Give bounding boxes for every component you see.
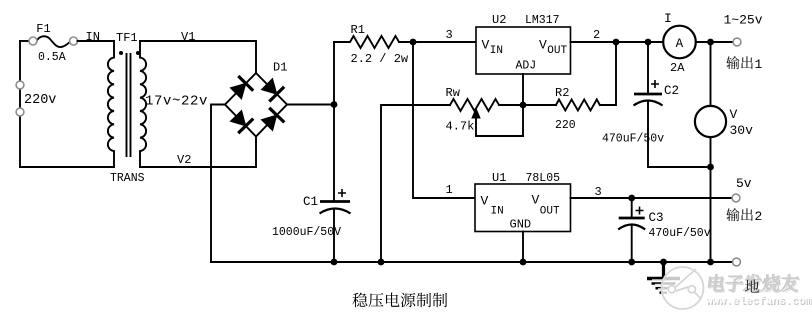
svg-text:470uF/50v: 470uF/50v xyxy=(602,133,664,146)
wire: node V2 secondary bottom to bridge xyxy=(140,137,256,168)
svg-text:78L05: 78L05 xyxy=(526,172,561,185)
label V2 xyxy=(177,153,191,167)
label pin 3 of U2 xyxy=(446,28,453,42)
label TRANS xyxy=(110,172,145,185)
resistor R2 xyxy=(556,100,600,111)
ground symbol xyxy=(647,259,680,293)
label shuchu2 (output 2) xyxy=(726,208,762,224)
wire: R1 to U2 VIN, pin 3 xyxy=(399,41,476,43)
label V xyxy=(730,107,738,122)
label LM317 xyxy=(525,14,560,27)
label I xyxy=(664,11,672,26)
label V1 xyxy=(181,30,195,44)
svg-text:TF1: TF1 xyxy=(116,31,138,45)
label Rw xyxy=(446,86,461,100)
wire: voltmeter top lead xyxy=(710,42,712,106)
label VOUT of U2 xyxy=(539,38,568,57)
svg-text:ADJ: ADJ xyxy=(516,60,537,73)
svg-text:D1: D1 xyxy=(273,61,287,75)
wire: U1 VOUT to output terminal 2, pin 3 xyxy=(571,197,733,199)
label VIN of U2 xyxy=(482,38,504,57)
label 30v xyxy=(730,123,754,138)
potentiometer Rw xyxy=(450,99,499,111)
potentiometer Rw wiper arrow xyxy=(472,109,480,119)
label IN xyxy=(86,30,100,44)
wire: voltmeter bottom to ground rail xyxy=(710,137,712,262)
label VOUT of U1 xyxy=(532,193,561,218)
label pin 2 of U2 xyxy=(593,28,600,42)
svg-text:17v~22v: 17v~22v xyxy=(145,94,208,110)
svg-text:U1: U1 xyxy=(492,171,506,185)
label 17v~22v xyxy=(145,94,208,110)
junction: R2 riser on output line xyxy=(613,39,620,46)
wire: U2 ADJ pin down xyxy=(522,74,524,136)
wire: C2 top lead xyxy=(647,42,649,94)
svg-text:220v: 220v xyxy=(24,93,56,108)
wire: C1 bottom to ground rail xyxy=(333,210,335,262)
label 0.5A xyxy=(38,51,66,64)
bridge diode bottom-left (L to B) xyxy=(230,110,253,133)
wire: C3 top lead xyxy=(631,198,633,218)
svg-text:LM317: LM317 xyxy=(525,14,560,27)
label 470uF/50v of C2 xyxy=(602,133,664,146)
svg-text:GND: GND xyxy=(510,217,532,231)
svg-text:F1: F1 xyxy=(36,22,50,36)
junction: C3 on rail xyxy=(628,259,635,266)
wire: tap down to U1 VIN, pin 1 xyxy=(413,42,475,198)
wire: ground rail xyxy=(211,261,733,263)
svg-text:470uF/50v: 470uF/50v xyxy=(649,227,711,240)
label 78L05 xyxy=(526,172,561,185)
wire: node V1 secondary top to bridge xyxy=(140,41,256,73)
junction: C1 on ground rail xyxy=(331,259,338,266)
wire: ground drop to Rw left xyxy=(381,105,450,262)
wire: Rw right to R2 left xyxy=(499,104,556,106)
op-amp/regulator U2 LM317 box xyxy=(476,27,571,74)
label C2 plus xyxy=(651,80,659,88)
svg-text:2A: 2A xyxy=(670,61,685,75)
watermark logo circle xyxy=(652,267,704,309)
transformer TF1 secondary winding xyxy=(140,41,146,167)
svg-text:V: V xyxy=(539,38,547,53)
label 220 xyxy=(555,119,576,132)
junction: Rw ground drop on rail xyxy=(378,259,385,266)
capacitor C3 xyxy=(618,218,645,230)
junction: tap to U1 input xyxy=(410,39,417,46)
label C3 xyxy=(649,211,664,225)
label D1 xyxy=(273,61,287,75)
svg-text:1: 1 xyxy=(446,183,453,197)
svg-text:IN: IN xyxy=(491,206,504,218)
resistor R1 xyxy=(334,36,399,48)
svg-text:2.2 / 2w: 2.2 / 2w xyxy=(351,52,409,66)
wire: ADJ loop to Rw wiper xyxy=(476,113,523,136)
wire: U1 GND pin to rail xyxy=(522,232,524,263)
label R1 xyxy=(351,23,365,37)
label GND of U1 xyxy=(510,217,532,231)
label C1 xyxy=(303,195,318,209)
label C3 plus xyxy=(636,207,644,215)
terminal: output 2 xyxy=(732,194,740,202)
terminal: 220v input top xyxy=(16,81,24,89)
terminal: output 1 xyxy=(733,38,741,46)
svg-text:IN: IN xyxy=(86,30,100,44)
svg-text:1: 1 xyxy=(755,57,763,72)
wire: fuse to transformer, node IN xyxy=(78,40,115,42)
svg-text:V2: V2 xyxy=(177,153,191,167)
svg-text:V: V xyxy=(482,38,490,53)
label 2A xyxy=(670,61,685,75)
svg-text:220: 220 xyxy=(555,119,576,132)
bridge diode top-right (T to R) xyxy=(261,79,284,102)
junction: bridge+ on main vertical xyxy=(331,101,338,108)
junction: voltmeter line on rail xyxy=(707,259,714,266)
label 220v xyxy=(24,93,56,108)
svg-text:30v: 30v xyxy=(730,123,754,138)
svg-text:2: 2 xyxy=(755,209,763,224)
terminal: ground output xyxy=(733,258,741,266)
svg-text:U2: U2 xyxy=(492,13,506,27)
svg-text:V: V xyxy=(532,193,540,208)
svg-text:Rw: Rw xyxy=(446,86,461,100)
junction: C3 tap on 5v line xyxy=(628,195,635,202)
wire: bottom of primary loop xyxy=(20,166,114,168)
svg-text:5v: 5v xyxy=(736,176,752,191)
voltmeter V xyxy=(695,106,726,137)
label 1~25v xyxy=(724,13,763,28)
svg-text:0.5A: 0.5A xyxy=(38,51,66,64)
label 1000uF/50V xyxy=(272,226,341,239)
label 2.2 / 2w xyxy=(351,52,409,66)
svg-text:C3: C3 xyxy=(649,211,664,225)
fuse F1 xyxy=(29,36,78,47)
svg-text:1000uF/50V: 1000uF/50V xyxy=(272,226,341,239)
wire: mains left vertical xyxy=(19,41,21,167)
label R2 xyxy=(555,86,569,100)
terminal: 220v input bottom xyxy=(16,108,24,116)
wire: U2 VOUT to output line, pin 2 xyxy=(571,41,664,43)
label 4.7k xyxy=(446,120,475,134)
svg-text:V1: V1 xyxy=(181,30,195,44)
wire: bridge left corner down to ground rail xyxy=(211,105,225,263)
junction: U1 GND on rail xyxy=(520,259,527,266)
label 470uF/50v of C3 xyxy=(649,227,711,240)
junction: C2 tap on output line xyxy=(645,39,652,46)
svg-text:V: V xyxy=(481,194,489,209)
svg-text:3: 3 xyxy=(446,28,453,42)
label F1 xyxy=(36,22,50,36)
regulator U1 78L05 box xyxy=(475,184,571,232)
wire: top from left corner to fuse xyxy=(20,40,29,42)
transformer polarity dots xyxy=(119,51,140,55)
wire: ammeter to output terminal 1 xyxy=(696,41,734,43)
junction: voltmeter tap on output line xyxy=(707,39,714,46)
bridge rectifier D1 frame xyxy=(225,73,287,137)
svg-text:2: 2 xyxy=(593,28,600,42)
svg-text:3: 3 xyxy=(595,185,602,199)
ammeter I xyxy=(663,26,696,59)
transformer core xyxy=(127,54,131,156)
wire: bridge right corner to main positive vertical xyxy=(287,104,334,106)
svg-text:V: V xyxy=(730,107,738,122)
wire: R2 right up to output line xyxy=(600,42,616,105)
label C2 xyxy=(664,84,679,98)
svg-text:OUT: OUT xyxy=(540,206,560,218)
svg-text:R1: R1 xyxy=(351,23,365,37)
svg-text:4.7k: 4.7k xyxy=(446,120,475,134)
watermark text elecfans xyxy=(707,274,801,293)
label shuchu1 (output 1) xyxy=(726,56,762,72)
label ADJ of U2 xyxy=(516,60,537,73)
svg-text:C1: C1 xyxy=(303,195,318,209)
wire: main positive vertical (R1 left to C1 top) xyxy=(333,42,335,202)
caption: regulated power supply xyxy=(352,293,447,308)
label 5v xyxy=(736,176,752,191)
capacitor C2 xyxy=(634,94,663,106)
svg-text:TRANS: TRANS xyxy=(110,172,145,185)
label TF1 xyxy=(116,31,138,45)
bridge diode bottom-right (B to R) xyxy=(261,108,284,131)
svg-text:OUT: OUT xyxy=(547,45,567,57)
svg-text:R2: R2 xyxy=(555,86,569,100)
junction: C2 ground meets voltmeter line xyxy=(707,164,714,171)
wire: C3 bottom to rail xyxy=(631,226,633,262)
label U1 xyxy=(492,171,506,185)
svg-text:I: I xyxy=(664,11,672,26)
label VIN of U1 xyxy=(481,194,504,218)
svg-text:A: A xyxy=(676,37,684,51)
junction: ADJ crosses Rw-R2 net xyxy=(520,102,527,109)
label C1 plus xyxy=(338,189,346,197)
capacitor C1 xyxy=(320,202,351,214)
svg-text:C2: C2 xyxy=(664,84,679,98)
label pin 1 of U1 xyxy=(446,183,453,197)
svg-text:IN: IN xyxy=(490,45,503,57)
wire: C2 bottom to voltmeter ground line xyxy=(648,102,711,167)
node: ground label xyxy=(745,279,759,292)
label pin 3 of U1 xyxy=(595,185,602,199)
svg-text:www.elecfans.com: www.elecfans.com xyxy=(706,296,812,308)
bridge diode top-left (L to T) xyxy=(230,76,253,99)
svg-text:1~25v: 1~25v xyxy=(724,13,763,28)
label U2 xyxy=(492,13,506,27)
transformer TF1 primary winding xyxy=(108,41,114,167)
